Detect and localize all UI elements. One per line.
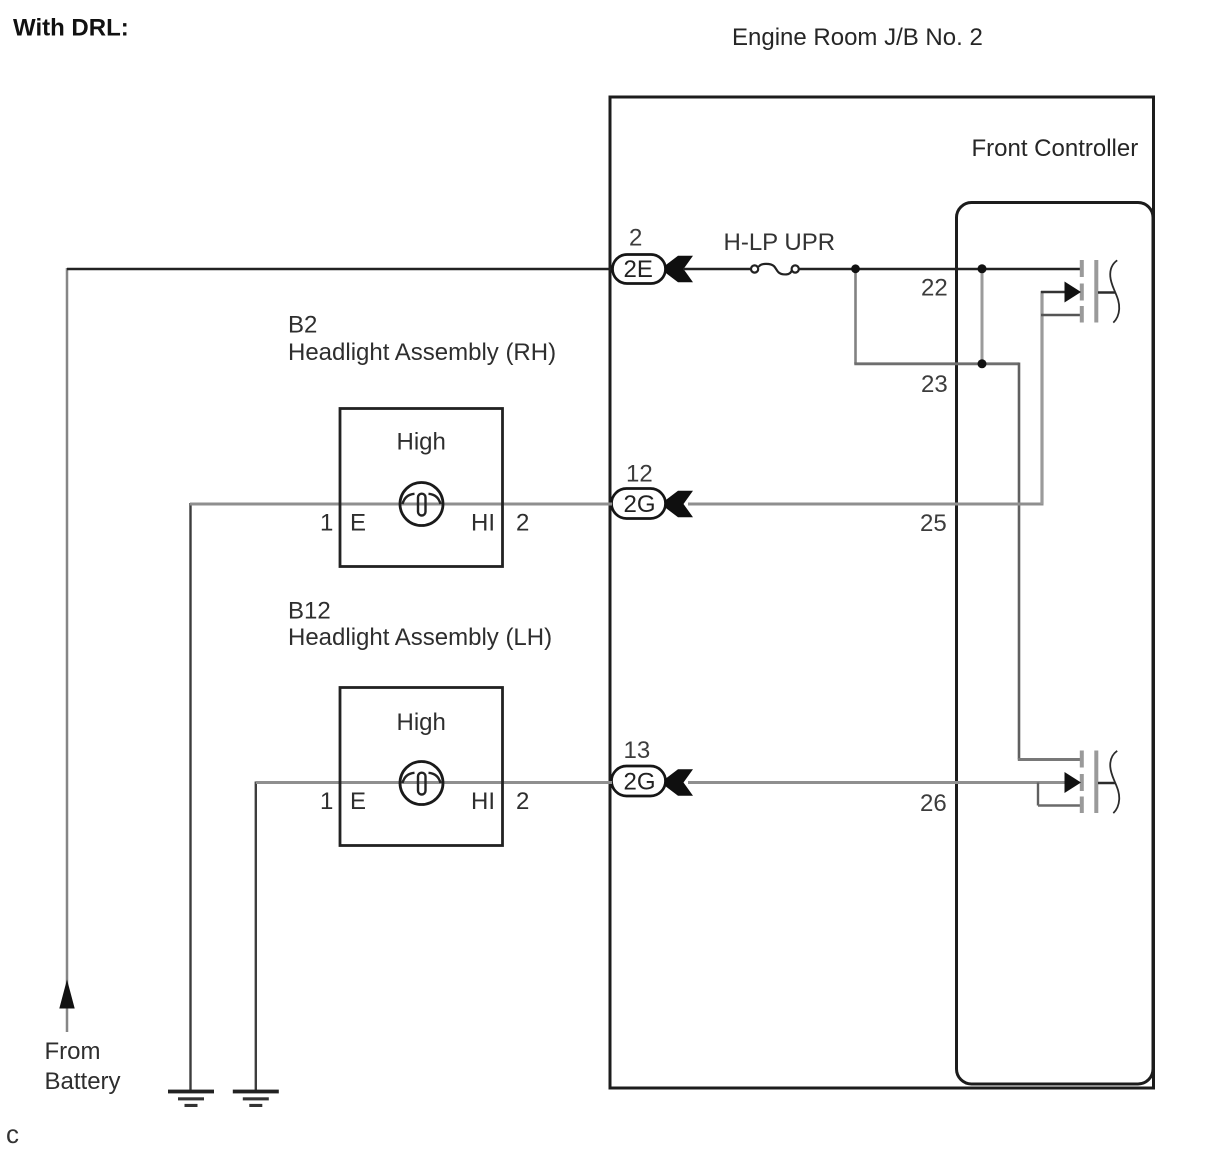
wire LH bulb horizontal xyxy=(256,781,612,784)
wire Q2 drain horizontal xyxy=(1018,758,1080,761)
svg-text:From: From xyxy=(45,1038,101,1065)
wire branch vertical at node A xyxy=(854,269,857,364)
svg-text:Battery: Battery xyxy=(45,1068,121,1095)
svg-text:2: 2 xyxy=(516,510,529,537)
node A junction dot xyxy=(851,264,860,273)
connector arrow at 2G pin13 xyxy=(665,769,694,795)
connector 2E oval xyxy=(613,255,666,284)
connector 2G pin12 oval xyxy=(612,489,666,519)
svg-text:2G: 2G xyxy=(624,491,656,518)
battery arrow up xyxy=(59,980,74,1009)
wire Q1 gate stub upper xyxy=(1041,291,1066,293)
connector arrow at 2G pin12 xyxy=(665,491,694,517)
wire Q1 gate vertical xyxy=(1040,291,1043,504)
svg-text:2: 2 xyxy=(629,225,642,252)
svg-text:Engine Room J/B No. 2: Engine Room J/B No. 2 xyxy=(732,24,983,51)
svg-text:High: High xyxy=(397,429,446,456)
wire RH bulb horizontal xyxy=(190,503,612,506)
wire Q2 drain vertical xyxy=(1018,363,1021,760)
svg-text:Front Controller: Front Controller xyxy=(972,135,1139,162)
bulb B2 high beam xyxy=(400,483,443,526)
wire 2G13 to Q2 xyxy=(688,781,1065,784)
transistor Q2 xyxy=(1065,751,1120,814)
junction block J/B box xyxy=(610,97,1154,1088)
svg-text:2: 2 xyxy=(516,788,529,815)
svg-text:With DRL:: With DRL: xyxy=(13,15,129,42)
svg-text:2E: 2E xyxy=(624,256,653,283)
wire battery to connector 2E xyxy=(67,268,613,271)
wire Q2 hook horizontal xyxy=(1038,804,1080,806)
wire Q2 hook vertical xyxy=(1037,783,1039,806)
svg-text:25: 25 xyxy=(920,510,947,537)
svg-text:E: E xyxy=(350,788,366,815)
ground G2 xyxy=(233,1090,279,1107)
wire 2G12 to Q1 gate xyxy=(688,503,1044,506)
wire arrow to fuse xyxy=(683,268,751,270)
wire fuse to transistor Q1 drain xyxy=(799,268,1080,270)
fuse H-LP UPR xyxy=(751,264,799,275)
svg-text:High: High xyxy=(397,709,446,736)
svg-text:12: 12 xyxy=(626,461,653,488)
svg-text:1: 1 xyxy=(320,788,333,815)
ground G1 xyxy=(168,1090,214,1107)
svg-text:c: c xyxy=(6,1119,19,1149)
node B junction dot xyxy=(978,264,987,273)
wire RH ground riser xyxy=(189,503,191,1091)
headlight B12 box xyxy=(340,688,503,846)
svg-text:2G: 2G xyxy=(624,768,656,795)
svg-text:B12: B12 xyxy=(288,598,331,625)
node C junction dot xyxy=(978,359,987,368)
wire LH ground riser xyxy=(255,782,257,1092)
transistor Q1 xyxy=(1065,260,1120,323)
svg-text:HI: HI xyxy=(471,788,495,815)
svg-text:13: 13 xyxy=(624,737,651,764)
svg-text:1: 1 xyxy=(320,510,333,537)
svg-text:Headlight Assembly (LH): Headlight Assembly (LH) xyxy=(288,624,552,651)
front controller box xyxy=(957,203,1154,1085)
connector 2G pin13 oval xyxy=(612,766,666,796)
svg-text:26: 26 xyxy=(920,790,947,817)
svg-text:Headlight Assembly (RH): Headlight Assembly (RH) xyxy=(288,339,556,366)
connector arrow at 2E xyxy=(665,256,694,282)
wire branch vertical between node B and node C xyxy=(981,269,984,364)
svg-text:E: E xyxy=(350,510,366,537)
headlight B2 box xyxy=(340,409,503,567)
svg-text:22: 22 xyxy=(921,275,948,302)
wire Q1 stub lower xyxy=(1041,314,1080,316)
bulb B12 high beam xyxy=(400,762,443,805)
svg-text:23: 23 xyxy=(921,371,948,398)
svg-text:HI: HI xyxy=(471,510,495,537)
wire branch horizontal pin 23 xyxy=(854,362,1019,365)
svg-text:H-LP UPR: H-LP UPR xyxy=(724,229,836,256)
wire battery riser vertical xyxy=(66,268,69,1032)
svg-text:B2: B2 xyxy=(288,312,317,339)
